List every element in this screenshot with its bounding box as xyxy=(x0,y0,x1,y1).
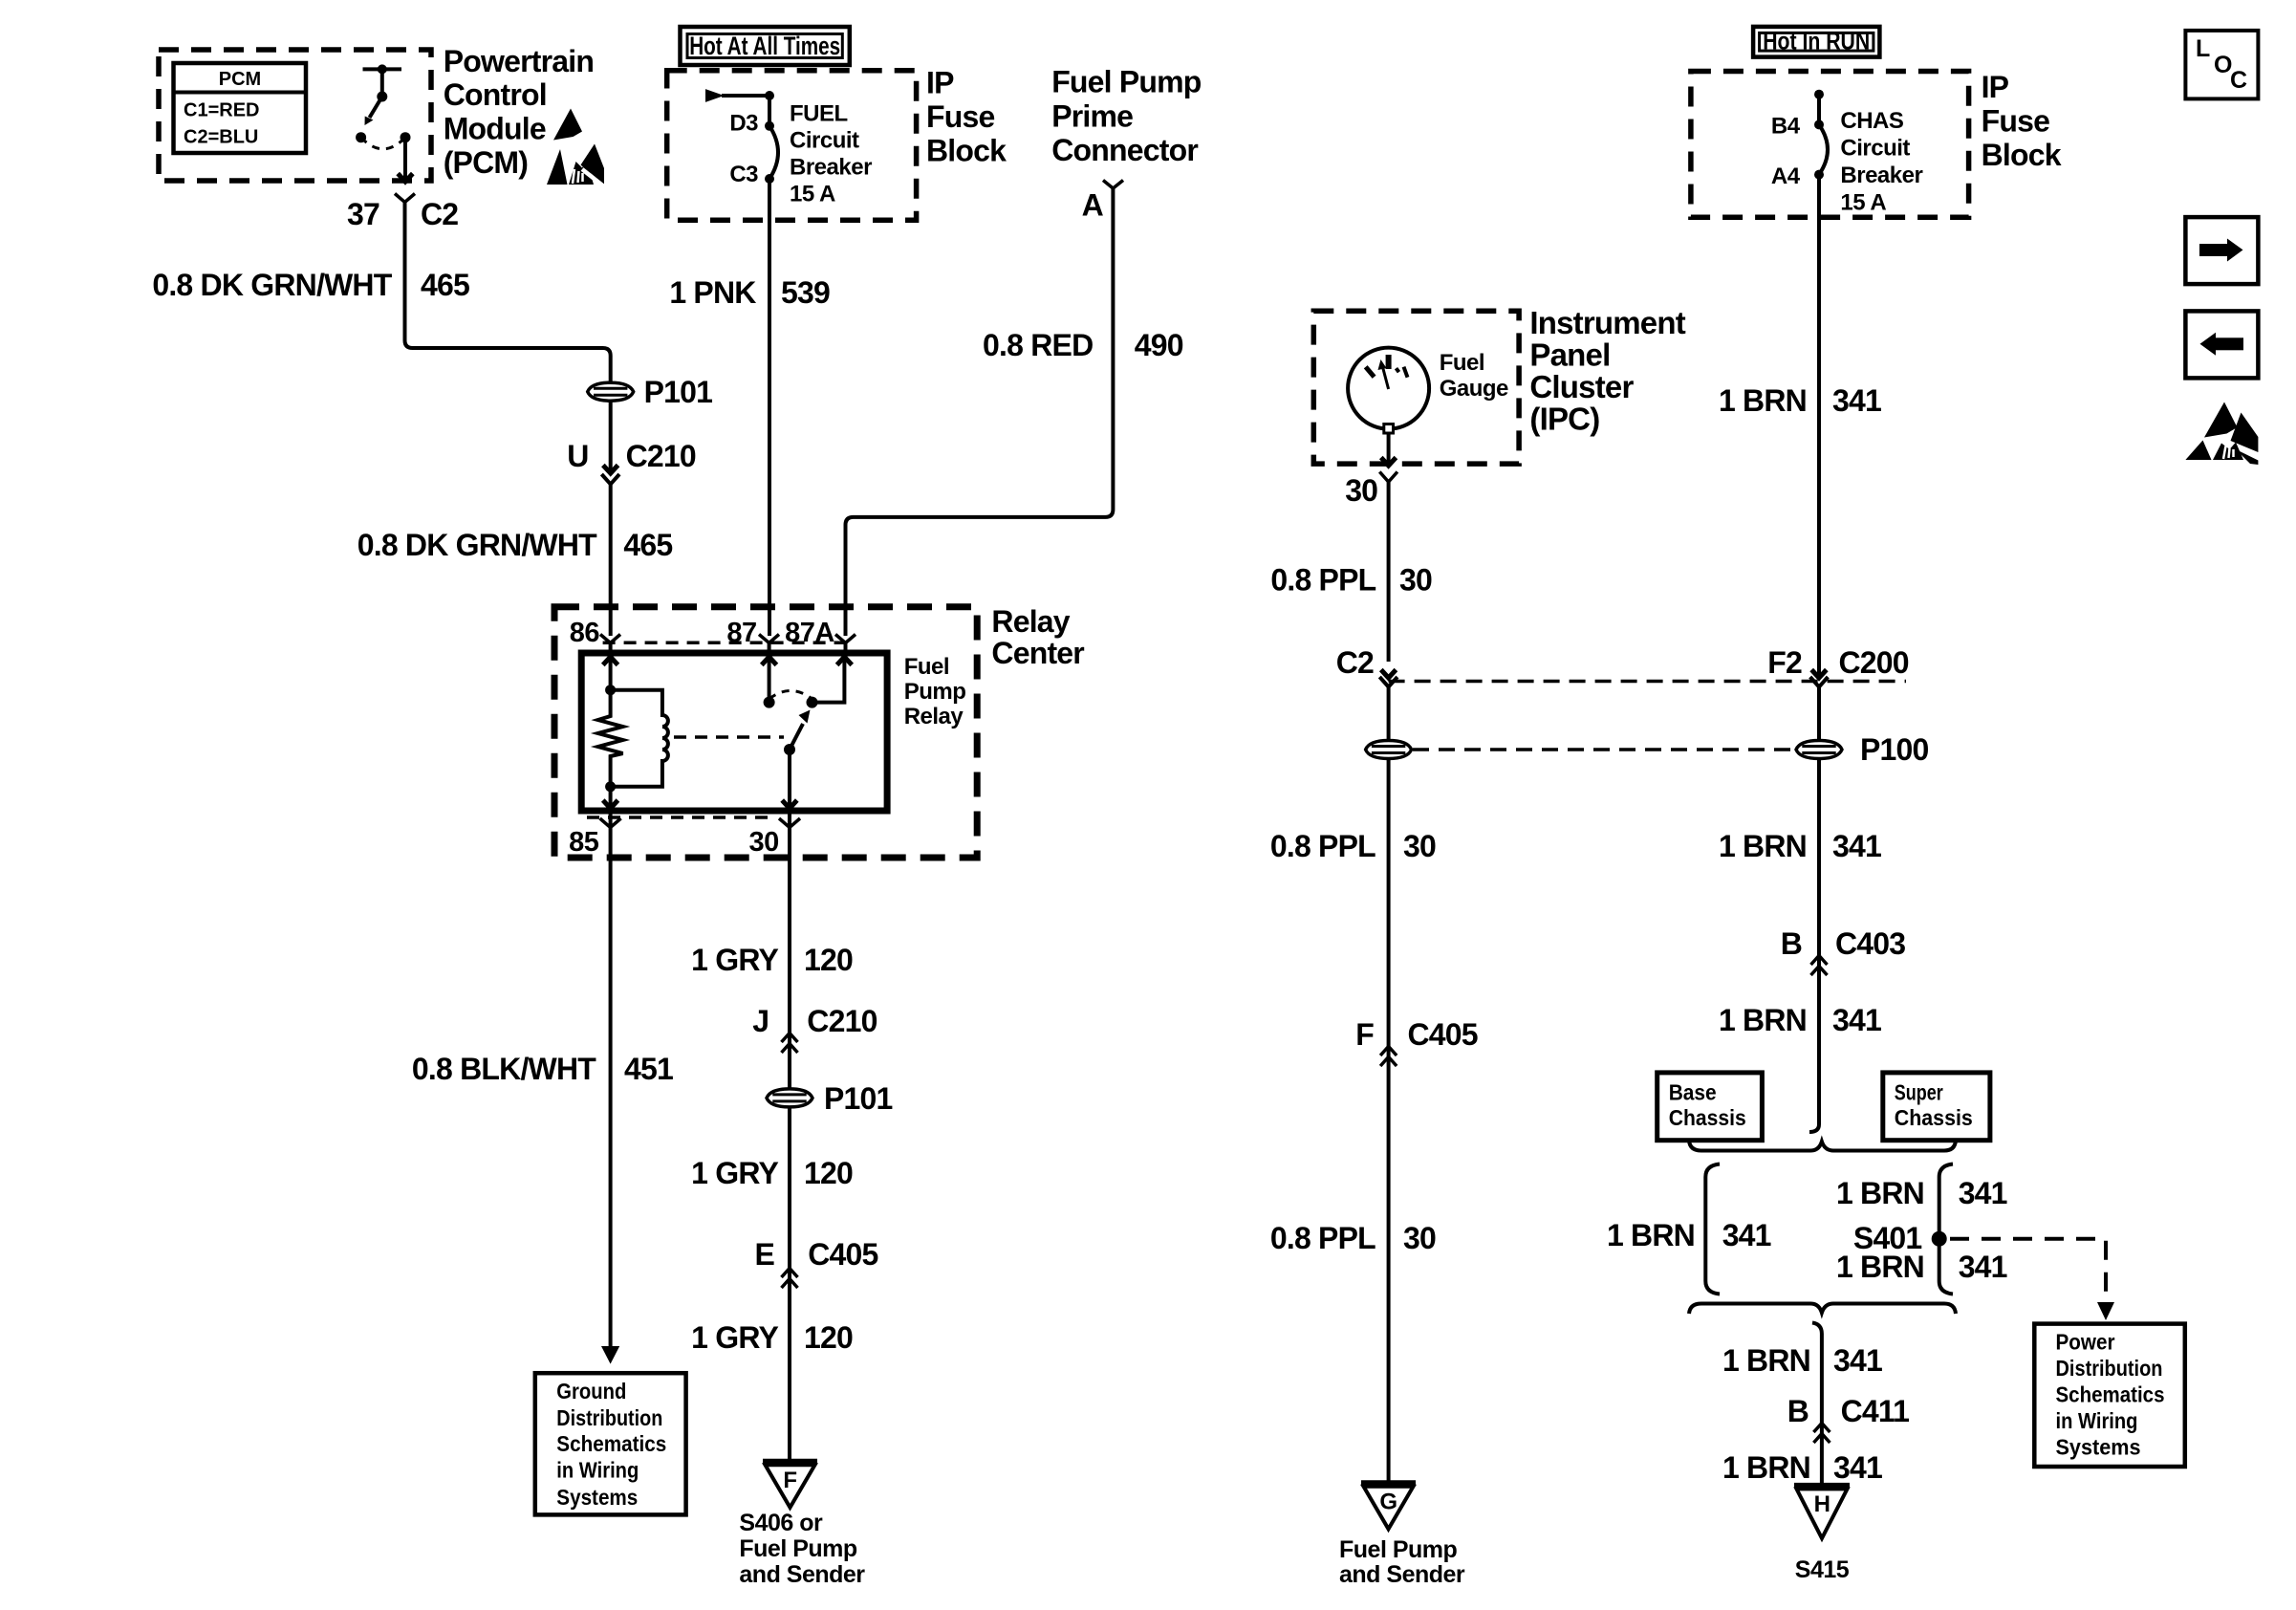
svg-text:1 BRN: 1 BRN xyxy=(1719,1003,1807,1037)
wire 120 GRY from relay pin 30 xyxy=(788,828,791,1462)
connector B C403 double chevron xyxy=(1811,956,1828,966)
svg-text:87A: 87A xyxy=(785,618,834,648)
svg-text:0.8 BLK/WHT: 0.8 BLK/WHT xyxy=(412,1052,596,1086)
S401 dashed reference link xyxy=(1950,1239,2106,1298)
fuel gauge terminal xyxy=(1384,424,1394,434)
relay pin 85 fork xyxy=(600,818,621,828)
ground triangle H (S415) xyxy=(1794,1486,1850,1538)
svg-text:0.8 RED: 0.8 RED xyxy=(983,328,1093,362)
connector C2 pin 37 fork at PCM xyxy=(395,194,415,203)
connector E C405 double chevron xyxy=(782,1269,798,1278)
wire 341 BRN to S415 xyxy=(1812,1323,1822,1486)
svg-text:30: 30 xyxy=(749,827,779,858)
fuel gauge face xyxy=(1348,348,1429,429)
svg-text:1 BRN: 1 BRN xyxy=(1719,383,1807,418)
svg-text:341: 341 xyxy=(1833,1343,1882,1378)
svg-text:P101: P101 xyxy=(824,1081,893,1116)
wire below P100 (right) xyxy=(1809,759,1819,1133)
fuel gauge ticks xyxy=(1366,355,1408,378)
svg-text:C200: C200 xyxy=(1839,645,1909,680)
svg-text:Schematics: Schematics xyxy=(2056,1382,2165,1407)
PCM connector-color legend box xyxy=(174,63,307,153)
svg-text:120: 120 xyxy=(804,1320,853,1355)
svg-text:341: 341 xyxy=(1959,1250,2007,1284)
wire below P100 (left) xyxy=(1387,759,1391,1484)
svg-text:Relay: Relay xyxy=(991,604,1070,639)
Fuel Pump Relay solid box xyxy=(581,653,887,811)
relay resistor xyxy=(598,690,623,787)
svg-text:0.8 DK GRN/WHT: 0.8 DK GRN/WHT xyxy=(152,268,392,302)
relay pin 30 fork xyxy=(779,818,800,828)
svg-text:C2: C2 xyxy=(421,197,458,231)
bottom alternatives brace xyxy=(1689,1304,1956,1315)
Ground Distribution Schematics box xyxy=(535,1373,686,1514)
CHAS circuit breaker element xyxy=(1814,120,1824,129)
svg-text:341: 341 xyxy=(1832,383,1881,418)
wire 341 BRN from breaker down xyxy=(1817,175,1821,678)
wire from C200 to P100 xyxy=(1387,687,1391,741)
svg-text:1 BRN: 1 BRN xyxy=(1836,1250,1924,1284)
svg-text:Super: Super xyxy=(1895,1080,1943,1105)
svg-text:Instrument: Instrument xyxy=(1529,305,1685,340)
svg-text:86: 86 xyxy=(570,618,600,648)
relay pin 86 stub and arrow xyxy=(609,643,613,654)
CHAS breaker feed node xyxy=(1814,90,1824,99)
LOC legend icon xyxy=(2185,31,2258,99)
svg-text:(PCM): (PCM) xyxy=(444,145,529,180)
svg-text:Center: Center xyxy=(991,636,1084,670)
PCM driver switch symbol xyxy=(356,64,413,182)
pass-through grommet P101 xyxy=(588,382,634,401)
svg-text:IP: IP xyxy=(1982,70,2009,104)
FUEL circuit breaker element xyxy=(765,121,774,131)
wire 539 PNK from breaker to relay pin 87 xyxy=(768,179,771,636)
svg-text:Systems: Systems xyxy=(2056,1435,2141,1460)
svg-text:F: F xyxy=(783,1468,796,1493)
svg-text:Panel: Panel xyxy=(1529,337,1610,373)
svg-text:Prime: Prime xyxy=(1051,98,1133,133)
svg-text:Circuit: Circuit xyxy=(1840,136,1910,162)
svg-text:Distribution: Distribution xyxy=(2056,1356,2163,1381)
svg-text:C405: C405 xyxy=(1408,1017,1478,1052)
relay actuation dashed link xyxy=(674,735,784,739)
svg-text:C210: C210 xyxy=(626,439,696,473)
svg-text:1 BRN: 1 BRN xyxy=(1719,829,1807,863)
connector A fork xyxy=(1103,181,1123,189)
svg-text:in Wiring: in Wiring xyxy=(556,1458,639,1483)
svg-text:Schematics: Schematics xyxy=(556,1431,666,1456)
relay contact dashed arc xyxy=(769,691,812,700)
base chassis wire segment 341 xyxy=(1705,1164,1720,1295)
svg-text:(IPC): (IPC) xyxy=(1529,402,1599,437)
svg-text:Fuel Pump: Fuel Pump xyxy=(1051,65,1202,99)
svg-text:A: A xyxy=(1082,188,1104,223)
svg-text:C2=BLU: C2=BLU xyxy=(184,127,258,148)
svg-text:J: J xyxy=(752,1004,769,1038)
Hot In RUN banner xyxy=(1753,27,1879,57)
svg-text:15 A: 15 A xyxy=(790,182,835,207)
relay coil top node xyxy=(605,685,616,695)
Powertrain Control Module (PCM) dashed box xyxy=(159,50,431,181)
svg-text:Gauge: Gauge xyxy=(1440,376,1508,402)
C200 connector dashed face line xyxy=(1389,680,1906,684)
svg-text:in Wiring: in Wiring xyxy=(2056,1408,2138,1433)
svg-text:Chassis: Chassis xyxy=(1669,1105,1746,1130)
PCM ESD warning triangle (upper) xyxy=(553,109,582,141)
Base Chassis box xyxy=(1657,1073,1763,1141)
Instrument Panel Cluster dashed box xyxy=(1313,311,1519,464)
svg-text:Powertrain: Powertrain xyxy=(444,44,594,78)
wire 465 lower segment xyxy=(609,484,613,636)
svg-text:341: 341 xyxy=(1722,1218,1771,1252)
svg-text:Module: Module xyxy=(444,112,546,146)
svg-text:C403: C403 xyxy=(1835,926,1905,961)
svg-text:1 BRN: 1 BRN xyxy=(1722,1343,1810,1378)
wire from P101 to C210 xyxy=(609,401,613,473)
connector J C210 double chevron xyxy=(782,1033,798,1043)
relay pin 30 stub xyxy=(788,811,791,828)
svg-text:U: U xyxy=(567,439,588,473)
svg-text:0.8 DK GRN/WHT: 0.8 DK GRN/WHT xyxy=(357,528,597,562)
svg-text:1 BRN: 1 BRN xyxy=(1722,1450,1810,1485)
ESD warning symbol (margin) xyxy=(2185,402,2258,466)
Super Chassis box xyxy=(1883,1073,1990,1141)
svg-text:P100: P100 xyxy=(1860,732,1929,767)
ground triangle F (S406) xyxy=(763,1462,817,1508)
relay coil bottom node xyxy=(605,781,616,792)
Power Distribution Schematics box xyxy=(2034,1324,2185,1467)
svg-text:30: 30 xyxy=(1403,829,1436,863)
svg-text:Fuel Pump: Fuel Pump xyxy=(1339,1536,1458,1563)
svg-text:30: 30 xyxy=(1403,1221,1436,1255)
svg-text:Ground: Ground xyxy=(556,1379,626,1403)
svg-text:Power: Power xyxy=(2056,1330,2115,1355)
svg-text:341: 341 xyxy=(1832,829,1881,863)
svg-text:0.8 PPL: 0.8 PPL xyxy=(1270,563,1375,598)
svg-text:S406 or: S406 or xyxy=(739,1510,823,1536)
ground triangle G (fuel pump sender) xyxy=(1361,1483,1416,1529)
svg-text:B: B xyxy=(1787,1394,1809,1428)
svg-text:1 BRN: 1 BRN xyxy=(1836,1176,1924,1210)
svg-text:B4: B4 xyxy=(1771,114,1801,140)
svg-text:G: G xyxy=(1379,1490,1397,1515)
P100 dashed link xyxy=(1413,748,1794,751)
svg-text:Fuse: Fuse xyxy=(1982,104,2050,139)
svg-text:and Sender: and Sender xyxy=(1339,1561,1465,1588)
wire from C200 to P100 (right) xyxy=(1817,687,1821,741)
IP Fuse Block dashed box (right) xyxy=(1691,72,1969,218)
relay pin 85 stub xyxy=(609,811,613,828)
wire 465 from PCM pin 37 (DK GRN/WHT) xyxy=(405,203,611,382)
relay socket dashed line (top) xyxy=(603,642,855,645)
svg-text:Relay: Relay xyxy=(904,704,964,729)
svg-text:and Sender: and Sender xyxy=(739,1561,865,1588)
svg-text:Block: Block xyxy=(926,134,1007,168)
svg-text:F2: F2 xyxy=(1767,645,1802,680)
right-arrow legend icon xyxy=(2185,217,2258,284)
svg-text:30: 30 xyxy=(1399,563,1432,598)
svg-text:Hot At All Times: Hot At All Times xyxy=(689,32,840,60)
svg-text:PCM: PCM xyxy=(219,69,261,90)
relay pin 87 contact xyxy=(768,643,771,654)
svg-text:Fuel: Fuel xyxy=(904,654,949,680)
wire 451 BLK/WHT from relay pin 85 to ground schematic xyxy=(609,828,613,1349)
relay socket dashed line (bottom) xyxy=(587,816,774,819)
splice S401 xyxy=(1932,1231,1947,1247)
relay pin 87A fork xyxy=(835,635,856,643)
svg-text:Hot In RUN: Hot In RUN xyxy=(1763,27,1870,55)
svg-text:Cluster: Cluster xyxy=(1529,369,1634,404)
svg-text:15 A: 15 A xyxy=(1840,190,1886,216)
svg-text:341: 341 xyxy=(1959,1176,2007,1210)
svg-text:1 BRN: 1 BRN xyxy=(1607,1218,1695,1252)
top alternatives brace xyxy=(1689,1141,1956,1151)
connector F C405 double chevron xyxy=(1380,1047,1397,1056)
svg-text:B: B xyxy=(1781,926,1802,961)
svg-text:C1=RED: C1=RED xyxy=(184,100,259,121)
svg-text:Fuel Pump: Fuel Pump xyxy=(739,1535,857,1562)
svg-text:F: F xyxy=(1355,1017,1374,1052)
relay movable arm xyxy=(784,744,795,755)
IP Fuse Block dashed box (left) xyxy=(667,71,917,221)
relay pin 86 fork xyxy=(600,635,620,643)
wire 490 RED from prime connector to relay pin 87A xyxy=(846,188,1114,636)
svg-text:C405: C405 xyxy=(808,1237,877,1272)
svg-text:451: 451 xyxy=(624,1052,673,1086)
svg-text:D3: D3 xyxy=(729,110,758,136)
svg-text:Connector: Connector xyxy=(1051,133,1198,167)
svg-text:C: C xyxy=(2230,67,2247,94)
bus feed arrow inside fuse block xyxy=(705,89,725,102)
svg-text:341: 341 xyxy=(1833,1450,1882,1485)
relay pin 87 fork xyxy=(759,635,779,643)
svg-text:37: 37 xyxy=(347,197,379,231)
svg-text:C3: C3 xyxy=(729,162,758,187)
svg-text:1 GRY: 1 GRY xyxy=(691,1320,778,1355)
Hot At All Times banner xyxy=(681,27,850,65)
relay pin 87A contact xyxy=(844,643,848,654)
PCM ESD warning symbol (lower, hand in triangle) xyxy=(547,144,605,188)
svg-text:465: 465 xyxy=(421,268,469,302)
svg-text:Fuel: Fuel xyxy=(1440,350,1484,376)
connector B C411 double chevron xyxy=(1813,1424,1830,1433)
super chassis wire segment 341 upper xyxy=(1939,1164,1953,1295)
svg-text:490: 490 xyxy=(1135,328,1183,362)
svg-text:30: 30 xyxy=(1345,473,1377,508)
svg-text:H: H xyxy=(1814,1491,1830,1517)
svg-text:Fuse: Fuse xyxy=(926,99,995,134)
pass-through grommet P100 (left) xyxy=(1366,741,1412,759)
wire 30 PPL from IPC xyxy=(1387,482,1391,662)
svg-text:465: 465 xyxy=(623,528,672,562)
svg-text:0.8 PPL: 0.8 PPL xyxy=(1270,1221,1375,1255)
svg-text:539: 539 xyxy=(781,275,830,310)
left-arrow legend icon xyxy=(2185,311,2258,378)
relay coil xyxy=(611,690,668,787)
svg-text:C411: C411 xyxy=(1841,1394,1910,1428)
svg-text:Pump: Pump xyxy=(904,679,966,705)
svg-text:1 PNK: 1 PNK xyxy=(669,275,756,310)
svg-text:1 GRY: 1 GRY xyxy=(691,1156,778,1190)
pass-through grommet P101 (lower) xyxy=(767,1089,812,1107)
connector U C210 (arrow + fork) xyxy=(603,466,618,474)
fuel gauge needle xyxy=(1382,365,1389,389)
svg-text:FUEL: FUEL xyxy=(790,101,848,127)
svg-text:C2: C2 xyxy=(1336,645,1374,680)
svg-text:Block: Block xyxy=(1982,138,2062,172)
svg-text:S415: S415 xyxy=(1795,1556,1850,1583)
svg-text:P101: P101 xyxy=(644,375,713,409)
pass-through grommet P100 (right) xyxy=(1796,741,1842,759)
svg-text:Base: Base xyxy=(1669,1080,1717,1105)
svg-text:Chassis: Chassis xyxy=(1895,1105,1973,1130)
Relay Center dashed box xyxy=(554,607,977,858)
svg-text:C210: C210 xyxy=(807,1004,877,1038)
svg-text:IP: IP xyxy=(926,66,954,100)
svg-text:Systems: Systems xyxy=(556,1485,638,1510)
IPC pin 30 fork xyxy=(1379,472,1397,483)
svg-text:87: 87 xyxy=(726,618,756,648)
svg-text:L: L xyxy=(2196,35,2210,62)
svg-text:0.8 PPL: 0.8 PPL xyxy=(1270,829,1375,863)
wire from feed to breaker xyxy=(722,94,769,98)
svg-text:CHAS: CHAS xyxy=(1840,108,1903,134)
svg-text:Control: Control xyxy=(444,77,547,112)
svg-text:85: 85 xyxy=(569,827,599,858)
svg-text:A4: A4 xyxy=(1771,163,1801,189)
arrow from gauge to IPC edge xyxy=(1387,433,1391,466)
svg-text:Distribution: Distribution xyxy=(556,1405,662,1430)
connector C2 at C200 (arrow + fork) xyxy=(1381,670,1397,679)
connector F2 at C200 (arrow + fork) xyxy=(1811,670,1827,679)
relay pin 30 stub and arrow xyxy=(788,750,791,809)
svg-text:Circuit: Circuit xyxy=(790,128,859,154)
relay pin 85 arrow xyxy=(609,787,613,809)
svg-text:341: 341 xyxy=(1832,1003,1881,1037)
svg-text:Breaker: Breaker xyxy=(790,155,872,181)
svg-text:120: 120 xyxy=(804,943,853,977)
svg-text:E: E xyxy=(754,1237,774,1272)
svg-text:Breaker: Breaker xyxy=(1840,163,1922,188)
svg-text:1 GRY: 1 GRY xyxy=(691,943,778,977)
svg-text:120: 120 xyxy=(804,1156,853,1190)
